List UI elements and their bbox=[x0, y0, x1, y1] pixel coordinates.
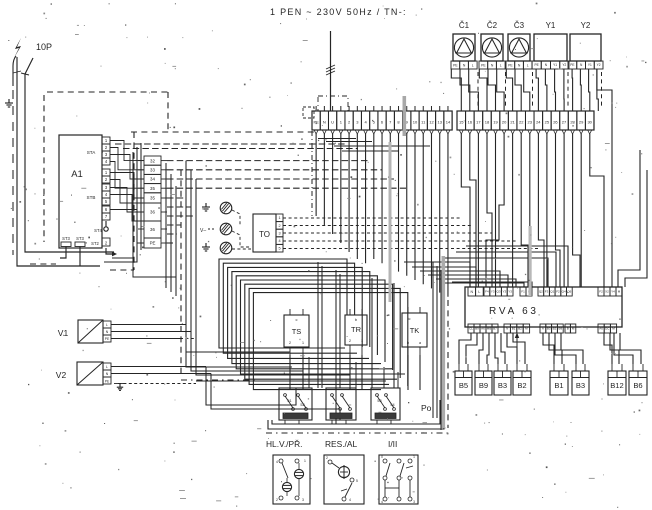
svg-text:Y1: Y1 bbox=[553, 63, 557, 67]
valve actuator Y1 bbox=[532, 21, 569, 69]
V1 terminals bbox=[103, 321, 111, 342]
dashed enclosure panel A1 top bbox=[47, 91, 168, 93]
svg-text:STA: STA bbox=[87, 150, 97, 155]
svg-text:U: U bbox=[331, 120, 334, 125]
earth screw 1 bbox=[202, 202, 232, 214]
small dashed box left of strip bbox=[303, 107, 314, 118]
svg-text:MB: MB bbox=[487, 327, 492, 331]
svg-text:Y2: Y2 bbox=[597, 63, 601, 67]
svg-text:34: 34 bbox=[150, 177, 155, 182]
svg-text:Q2: Q2 bbox=[539, 290, 543, 294]
svg-text:PE: PE bbox=[534, 63, 538, 67]
svg-text:Y3: Y3 bbox=[502, 290, 506, 294]
earth screw 3 bbox=[202, 242, 232, 254]
wire: feed line 2 with switch blade bbox=[21, 58, 114, 252]
svg-text:Č1: Č1 bbox=[459, 21, 470, 30]
svg-text:PE: PE bbox=[453, 63, 458, 67]
A1 terminal group low bbox=[102, 206, 110, 220]
wire bundle: nested distribution lines bbox=[219, 259, 408, 390]
sensor B3a box bbox=[572, 364, 589, 395]
svg-text:B7: B7 bbox=[493, 327, 497, 331]
svg-text:2: 2 bbox=[326, 456, 328, 460]
svg-text:B3: B3 bbox=[498, 381, 507, 390]
svg-text:B9: B9 bbox=[558, 327, 562, 331]
svg-text:Q3: Q3 bbox=[496, 290, 500, 294]
terminal strip X1 left segment (PE..14) bbox=[312, 111, 452, 130]
svg-text:L: L bbox=[106, 365, 108, 369]
svg-text:B5: B5 bbox=[459, 381, 468, 390]
A1 terminal group STB bbox=[87, 184, 110, 205]
svg-text:V–: V– bbox=[200, 228, 206, 234]
svg-text:2: 2 bbox=[289, 341, 291, 345]
svg-text:PE: PE bbox=[105, 379, 109, 383]
wire: feed tick bbox=[13, 71, 21, 73]
wire: ST3 drop right bbox=[79, 247, 81, 267]
svg-text:19: 19 bbox=[493, 120, 498, 125]
wires: bottom rails bbox=[268, 398, 444, 429]
pump C1 (circulation pump) bbox=[451, 21, 477, 69]
TO terminal column bbox=[276, 214, 283, 252]
svg-text:35: 35 bbox=[150, 186, 155, 191]
svg-text:L: L bbox=[527, 63, 529, 67]
svg-text:10: 10 bbox=[413, 120, 418, 125]
dashed enclosure middle top bbox=[131, 131, 314, 133]
svg-text:3: 3 bbox=[413, 500, 415, 504]
svg-text:X2: X2 bbox=[605, 290, 609, 294]
wires: relay drops to rails bbox=[285, 420, 391, 424]
wires: field mesh verticals bbox=[186, 262, 398, 424]
wires: verticals left of X2 bbox=[104, 143, 141, 262]
svg-text:F2: F2 bbox=[556, 290, 560, 294]
svg-text:L: L bbox=[472, 63, 474, 67]
svg-text:5: 5 bbox=[356, 479, 358, 483]
svg-text:Q4: Q4 bbox=[562, 290, 566, 294]
switch S2 RES./AL detail box bbox=[324, 455, 364, 504]
dashed enclosure panel A1 bottom stub bbox=[30, 263, 56, 265]
svg-text:26: 26 bbox=[553, 120, 558, 125]
svg-text:B2: B2 bbox=[553, 327, 557, 331]
svg-text:4: 4 bbox=[381, 500, 383, 504]
wires: A1 to terminal strip X2 bbox=[110, 141, 144, 244]
svg-text:Y3: Y3 bbox=[491, 290, 495, 294]
svg-text:15: 15 bbox=[459, 120, 464, 125]
svg-text:ST3: ST3 bbox=[76, 236, 84, 241]
svg-text:Y1: Y1 bbox=[546, 21, 556, 30]
svg-text:Y1: Y1 bbox=[588, 63, 592, 67]
svg-text:54: 54 bbox=[390, 403, 394, 407]
svg-text:2: 2 bbox=[278, 224, 280, 228]
wires: pumps and valves to strip bbox=[451, 69, 598, 111]
svg-text:17: 17 bbox=[476, 120, 481, 125]
svg-text:B: B bbox=[567, 327, 569, 331]
svg-text:1 PEN ~ 230V 50Hz / TN-:: 1 PEN ~ 230V 50Hz / TN-: bbox=[270, 7, 407, 17]
svg-text:RVA 63: RVA 63 bbox=[489, 306, 539, 317]
label T/II bbox=[388, 439, 397, 449]
bracket below X2 bbox=[133, 247, 176, 277]
svg-text:V2: V2 bbox=[56, 370, 67, 380]
svg-text:B9: B9 bbox=[475, 327, 479, 331]
sensor B5 box bbox=[455, 364, 472, 395]
thermostat TR box bbox=[345, 309, 367, 355]
sensor B1 box bbox=[550, 364, 568, 395]
sensor B9 box bbox=[475, 364, 492, 395]
wire: PEN conductor drop bbox=[330, 31, 332, 111]
dashed separators between device feeders bbox=[478, 72, 602, 108]
svg-text:a: a bbox=[419, 341, 421, 345]
A1 jumpers ST3 ST3 bbox=[61, 236, 85, 247]
relay K3 box bbox=[371, 388, 400, 420]
switch S1 HL.V./PR. detail box bbox=[273, 455, 310, 504]
svg-text:B2: B2 bbox=[517, 381, 526, 390]
switch S3 I-II detail box bbox=[379, 455, 418, 504]
A1 terminal group STA bbox=[87, 137, 110, 165]
wires: V2 to right bbox=[111, 367, 211, 384]
svg-text:CL: CL bbox=[469, 327, 473, 331]
svg-text:F3: F3 bbox=[545, 290, 549, 294]
svg-text:32: 32 bbox=[150, 158, 155, 163]
svg-text:b: b bbox=[407, 341, 409, 345]
svg-text:25: 25 bbox=[545, 120, 550, 125]
svg-text:PE: PE bbox=[570, 63, 574, 67]
svg-text:L: L bbox=[106, 323, 108, 327]
svg-text:ST2: ST2 bbox=[91, 241, 99, 246]
svg-text:L: L bbox=[478, 290, 480, 294]
wire: screw3 link bbox=[232, 248, 251, 250]
dashed enclosure middle right bbox=[447, 300, 449, 428]
wires: V sensors vertical runs bbox=[186, 161, 350, 420]
sensor B3 box bbox=[494, 364, 511, 395]
transformer TO box bbox=[253, 214, 276, 252]
svg-text:4: 4 bbox=[278, 239, 280, 243]
svg-text:F2: F2 bbox=[599, 290, 603, 294]
svg-text:30: 30 bbox=[587, 120, 592, 125]
svg-text:21: 21 bbox=[510, 120, 515, 125]
svg-text:c: c bbox=[296, 317, 298, 322]
dashed enclosure panel A1 left bbox=[43, 95, 45, 242]
dashed enclosure middle bottom bbox=[266, 432, 448, 434]
svg-text:RES./AL: RES./AL bbox=[325, 439, 357, 449]
svg-text:4: 4 bbox=[276, 460, 278, 464]
svg-text:29: 29 bbox=[579, 120, 584, 125]
relay K1 box bbox=[279, 388, 312, 420]
svg-text:N: N bbox=[323, 120, 326, 125]
svg-text:A6: A6 bbox=[481, 327, 485, 331]
controller A1 box bbox=[59, 135, 102, 248]
svg-text:B1: B1 bbox=[554, 381, 563, 390]
A1 terminal ST4 bbox=[94, 221, 108, 233]
svg-text:0: 0 bbox=[381, 455, 383, 459]
svg-text:Č3: Č3 bbox=[514, 21, 525, 30]
wire: A1 bottom arrow bbox=[106, 248, 117, 256]
wires: far right verticals bbox=[597, 69, 647, 287]
wires: dashed field lines to right bbox=[115, 144, 406, 243]
svg-text:Po: Po bbox=[421, 403, 432, 413]
V2 terminals bbox=[103, 363, 111, 377]
svg-text:B1: B1 bbox=[512, 327, 516, 331]
svg-text:36: 36 bbox=[150, 210, 155, 215]
svg-text:F1: F1 bbox=[521, 290, 525, 294]
PEN split tick bbox=[326, 65, 335, 75]
dash-dot PE box bbox=[318, 96, 348, 111]
wire: screw2 link bbox=[232, 231, 251, 247]
sensor V2 box bbox=[56, 362, 103, 385]
svg-text:1: 1 bbox=[361, 339, 363, 343]
dashed boundary bbox=[181, 170, 258, 380]
svg-text:B6: B6 bbox=[633, 381, 642, 390]
wires: drops below strip left segment bbox=[316, 134, 448, 297]
svg-text:B2: B2 bbox=[518, 327, 522, 331]
svg-text:N: N bbox=[506, 327, 508, 331]
wire: feed line 0 (hooked, dashed below) bbox=[13, 56, 16, 255]
wire: ST3 drop left bbox=[60, 247, 66, 259]
svg-text:1: 1 bbox=[302, 341, 304, 345]
svg-text:2: 2 bbox=[349, 339, 351, 343]
svg-text:12: 12 bbox=[429, 120, 434, 125]
svg-text:N: N bbox=[470, 290, 473, 294]
svg-text:STB: STB bbox=[87, 195, 96, 200]
terminal strip X2 (32-38, PE) bbox=[144, 156, 161, 248]
svg-text:2: 2 bbox=[276, 498, 278, 502]
RVA63 top terminal row bbox=[468, 287, 622, 296]
wires: Po verticals bbox=[433, 262, 441, 430]
svg-text:Y2: Y2 bbox=[581, 21, 591, 30]
wires: RVA63 to sensors bbox=[459, 333, 641, 365]
wire bundle: lines to RVA63 top bbox=[404, 246, 568, 287]
label HL.V./PR. bbox=[266, 439, 302, 449]
sensor V1 box bbox=[58, 320, 103, 343]
wires: stubs above strip left bbox=[316, 106, 448, 111]
relay K2 box bbox=[326, 388, 356, 420]
svg-text:ST4: ST4 bbox=[94, 228, 102, 233]
net label: supply 1 PEN ~ 230V 50Hz / TN-C bbox=[270, 7, 407, 17]
svg-text:Ic: Ic bbox=[407, 316, 410, 321]
RVA63 bottom terminal row bbox=[468, 324, 617, 333]
svg-text:14: 14 bbox=[446, 120, 451, 125]
A1 terminal group mid bbox=[102, 169, 110, 183]
svg-text:53: 53 bbox=[377, 399, 381, 403]
svg-text:TK: TK bbox=[410, 326, 420, 335]
svg-text:16: 16 bbox=[468, 120, 473, 125]
svg-text:PE: PE bbox=[508, 63, 513, 67]
svg-text:I/II: I/II bbox=[388, 439, 397, 449]
breaker label 10P bbox=[36, 42, 52, 52]
svg-text:PE: PE bbox=[481, 63, 486, 67]
svg-text:3: 3 bbox=[278, 231, 280, 235]
svg-text:PE: PE bbox=[105, 337, 110, 341]
svg-text:35: 35 bbox=[150, 196, 155, 201]
pump C2 bbox=[479, 21, 505, 69]
ground symbol at feed bbox=[5, 99, 13, 107]
surge arrester symbol (lightning bolt) bbox=[14, 38, 21, 58]
wires: V1 to right bbox=[111, 325, 196, 339]
A1 terminal ST2 bbox=[91, 238, 110, 246]
svg-text:1: 1 bbox=[413, 455, 415, 459]
svg-text:1: 1 bbox=[278, 216, 280, 220]
svg-text:24: 24 bbox=[536, 120, 541, 125]
controller RVA 63 box bbox=[465, 287, 622, 327]
svg-text:18: 18 bbox=[485, 120, 490, 125]
svg-text:33: 33 bbox=[150, 167, 155, 172]
svg-text:V1: V1 bbox=[58, 328, 69, 338]
label RES./AL bbox=[325, 439, 357, 449]
svg-text:F4: F4 bbox=[485, 290, 489, 294]
svg-text:Q6: Q6 bbox=[567, 290, 571, 294]
svg-text:HL.V./PŘ.: HL.V./PŘ. bbox=[266, 439, 302, 449]
dashed enclosure panel A1 right stub bbox=[167, 92, 169, 130]
svg-text:23: 23 bbox=[528, 120, 533, 125]
svg-text:52: 52 bbox=[300, 403, 304, 407]
terminal strip X1 right segment (15..30) bbox=[457, 111, 594, 130]
sensor B2 box bbox=[513, 364, 531, 395]
svg-text:ST3: ST3 bbox=[62, 236, 70, 241]
svg-text:28: 28 bbox=[570, 120, 575, 125]
wires: TO secondary dashed lines bbox=[283, 218, 540, 249]
svg-text:L: L bbox=[500, 63, 502, 67]
svg-text:Y2: Y2 bbox=[562, 63, 566, 67]
svg-text:TS: TS bbox=[292, 327, 302, 336]
svg-text:TR: TR bbox=[351, 325, 362, 334]
svg-text:B3: B3 bbox=[576, 381, 585, 390]
dash-dot PE boundary below strip bbox=[311, 131, 313, 216]
svg-text:A: A bbox=[542, 327, 544, 331]
svg-text:27: 27 bbox=[562, 120, 567, 125]
wire: feed line 1 bbox=[17, 57, 100, 266]
svg-text:B3: B3 bbox=[547, 327, 551, 331]
svg-text:TO: TO bbox=[259, 230, 270, 239]
thermostat TS box bbox=[284, 309, 309, 355]
svg-text:PE: PE bbox=[150, 241, 156, 246]
wires: verticals right of X2 bbox=[166, 163, 176, 296]
sensor B6 box bbox=[629, 364, 647, 395]
wires: TS TR TK drops bbox=[290, 355, 420, 390]
svg-text:Y3: Y3 bbox=[508, 290, 512, 294]
label Po bbox=[421, 403, 432, 413]
dashed enclosure middle left bbox=[110, 132, 134, 270]
wires: strip right segment down to RVA63 bbox=[461, 134, 604, 287]
svg-text:51: 51 bbox=[287, 399, 291, 403]
svg-text:13: 13 bbox=[437, 120, 442, 125]
svg-text:A6: A6 bbox=[599, 327, 603, 331]
svg-text:3: 3 bbox=[302, 498, 304, 502]
valve actuator Y2 bbox=[568, 21, 603, 69]
svg-text:1: 1 bbox=[304, 459, 306, 463]
svg-text:10P: 10P bbox=[36, 42, 52, 52]
svg-text:4: 4 bbox=[349, 498, 351, 502]
svg-text:Q1: Q1 bbox=[550, 290, 554, 294]
svg-text:5: 5 bbox=[278, 247, 280, 251]
svg-text:B9: B9 bbox=[479, 381, 488, 390]
svg-text:Y4: Y4 bbox=[611, 290, 615, 294]
svg-text:20: 20 bbox=[502, 120, 507, 125]
svg-text:36: 36 bbox=[150, 227, 155, 232]
wires: X2 side stubs bbox=[138, 161, 167, 243]
pump C3 bbox=[506, 21, 532, 69]
thermostat TK box bbox=[402, 307, 427, 355]
svg-text:B12: B12 bbox=[610, 381, 624, 390]
svg-text:22: 22 bbox=[519, 120, 524, 125]
V2 PE stub bbox=[103, 377, 125, 390]
svg-text:A1: A1 bbox=[71, 169, 83, 180]
svg-text:Č2: Č2 bbox=[487, 21, 498, 30]
wire: screw1 to TO bbox=[232, 210, 240, 226]
earth screw 2 bbox=[200, 223, 232, 235]
wires: strain marks below strip bbox=[314, 130, 592, 134]
sensor B12 box bbox=[608, 364, 626, 395]
